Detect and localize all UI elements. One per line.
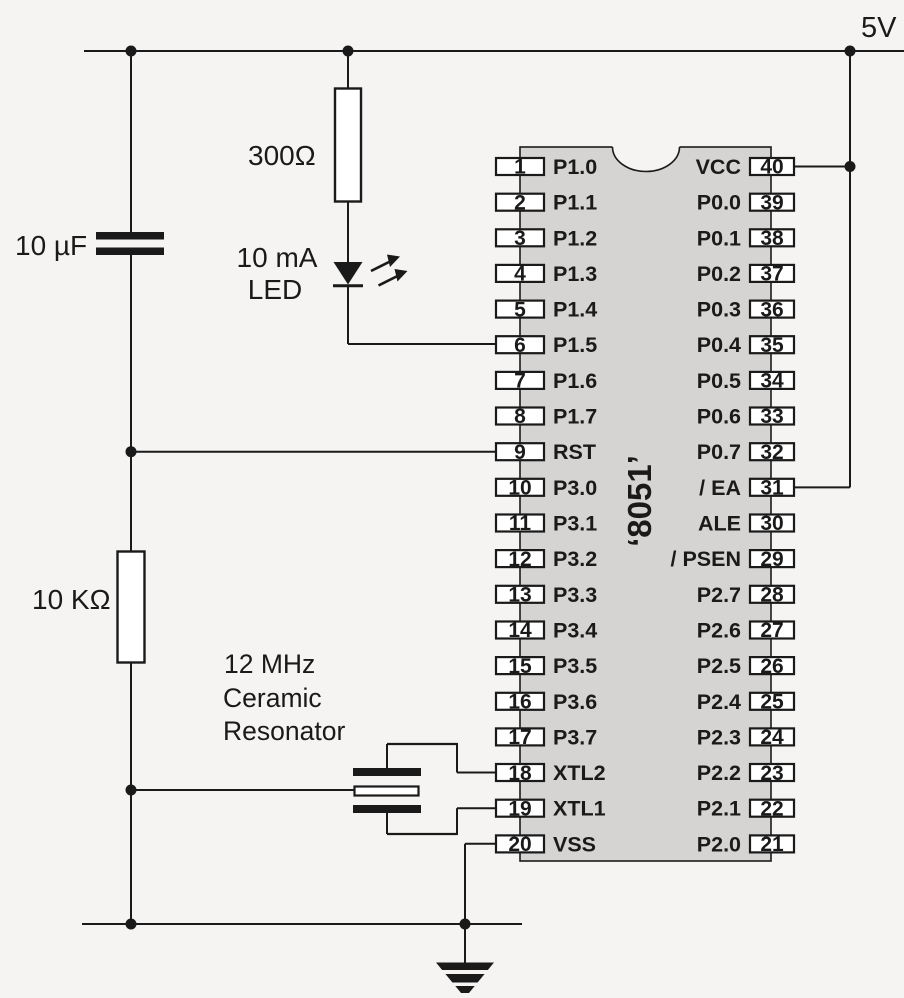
svg-text:40: 40 (760, 156, 783, 179)
svg-text:28: 28 (760, 584, 784, 607)
svg-text:P0.1: P0.1 (697, 226, 741, 250)
svg-text:Ceramic: Ceramic (223, 683, 322, 713)
svg-text:26: 26 (760, 655, 783, 678)
svg-text:/ EA: / EA (699, 476, 741, 500)
svg-text:‘8051’: ‘8051’ (621, 455, 658, 547)
svg-text:P3.5: P3.5 (553, 654, 597, 678)
svg-text:10: 10 (508, 477, 531, 500)
svg-text:P3.1: P3.1 (553, 512, 597, 536)
svg-text:19: 19 (508, 797, 531, 820)
svg-text:VSS: VSS (553, 832, 596, 856)
svg-text:6: 6 (514, 334, 526, 357)
svg-text:34: 34 (760, 370, 784, 393)
svg-text:ALE: ALE (698, 512, 741, 536)
svg-text:36: 36 (760, 298, 783, 321)
svg-text:10 µF: 10 µF (15, 230, 87, 261)
svg-text:VCC: VCC (696, 155, 741, 179)
svg-text:39: 39 (760, 191, 783, 214)
svg-text:2: 2 (514, 191, 526, 214)
svg-text:P1.7: P1.7 (553, 405, 597, 429)
svg-text:300Ω: 300Ω (248, 140, 316, 171)
svg-text:5: 5 (514, 298, 526, 321)
svg-text:P1.0: P1.0 (553, 155, 597, 179)
svg-text:/ PSEN: / PSEN (671, 547, 742, 571)
svg-text:P0.4: P0.4 (697, 333, 741, 357)
svg-text:32: 32 (760, 441, 783, 464)
svg-text:24: 24 (760, 726, 784, 749)
svg-text:10 KΩ: 10 KΩ (32, 584, 111, 615)
svg-text:P3.7: P3.7 (553, 725, 597, 749)
svg-text:20: 20 (508, 833, 531, 856)
svg-text:25: 25 (760, 691, 784, 714)
svg-text:29: 29 (760, 548, 783, 571)
svg-text:12: 12 (508, 548, 531, 571)
svg-text:P3.0: P3.0 (553, 476, 597, 500)
svg-text:XTL2: XTL2 (553, 761, 606, 785)
svg-text:P0.2: P0.2 (697, 262, 741, 286)
svg-text:11: 11 (509, 512, 532, 535)
svg-text:8: 8 (514, 405, 526, 428)
svg-text:P3.2: P3.2 (553, 547, 597, 571)
svg-text:15: 15 (508, 655, 532, 678)
svg-text:35: 35 (760, 334, 784, 357)
svg-text:XTL1: XTL1 (553, 797, 606, 821)
svg-text:38: 38 (760, 227, 784, 250)
svg-text:10 mA: 10 mA (237, 242, 318, 273)
svg-text:P2.3: P2.3 (697, 725, 741, 749)
svg-text:P0.3: P0.3 (697, 298, 741, 322)
svg-text:9: 9 (514, 441, 526, 464)
svg-text:16: 16 (508, 691, 531, 714)
svg-text:P2.4: P2.4 (697, 690, 741, 714)
svg-text:27: 27 (760, 619, 783, 642)
svg-text:37: 37 (760, 263, 783, 286)
svg-text:P2.7: P2.7 (697, 583, 741, 607)
svg-text:P0.6: P0.6 (697, 405, 741, 429)
svg-text:13: 13 (508, 584, 531, 607)
svg-text:18: 18 (508, 762, 532, 785)
svg-text:P3.6: P3.6 (553, 690, 597, 714)
svg-text:P3.3: P3.3 (553, 583, 597, 607)
svg-text:3: 3 (514, 227, 526, 250)
svg-text:P1.2: P1.2 (553, 226, 597, 250)
svg-text:Resonator: Resonator (223, 716, 345, 746)
svg-text:P2.0: P2.0 (697, 832, 741, 856)
svg-text:P3.4: P3.4 (553, 619, 597, 643)
svg-text:P0.5: P0.5 (697, 369, 741, 393)
svg-text:P1.6: P1.6 (553, 369, 597, 393)
svg-text:1: 1 (514, 156, 526, 179)
svg-text:P0.0: P0.0 (697, 191, 741, 215)
svg-text:P0.7: P0.7 (697, 440, 741, 464)
svg-text:P1.5: P1.5 (553, 333, 597, 357)
svg-text:33: 33 (760, 405, 783, 428)
svg-text:7: 7 (514, 370, 526, 393)
svg-text:30: 30 (760, 512, 783, 535)
svg-text:5V: 5V (861, 12, 897, 44)
svg-text:P2.2: P2.2 (697, 761, 741, 785)
svg-text:23: 23 (760, 762, 783, 785)
svg-text:21: 21 (760, 833, 784, 856)
svg-text:RST: RST (553, 440, 596, 464)
svg-text:12 MHz: 12 MHz (224, 649, 315, 679)
svg-text:4: 4 (514, 263, 526, 286)
svg-text:31: 31 (760, 477, 784, 500)
svg-text:LED: LED (248, 274, 302, 305)
svg-text:P1.3: P1.3 (553, 262, 597, 286)
svg-text:P1.4: P1.4 (553, 298, 597, 322)
svg-text:P2.5: P2.5 (697, 654, 741, 678)
svg-text:P1.1: P1.1 (553, 191, 597, 215)
svg-text:P2.1: P2.1 (697, 797, 741, 821)
svg-text:14: 14 (508, 619, 532, 642)
svg-text:17: 17 (508, 726, 531, 749)
svg-text:P2.6: P2.6 (697, 619, 741, 643)
svg-text:22: 22 (760, 797, 783, 820)
